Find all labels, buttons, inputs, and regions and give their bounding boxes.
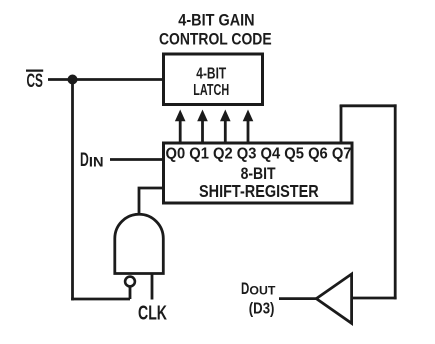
svg-text:LATCH: LATCH bbox=[193, 82, 229, 99]
wire gate output to shift register bbox=[139, 188, 164, 215]
svg-text:D: D bbox=[241, 280, 250, 298]
wire arrow Q2 to latch bbox=[220, 110, 231, 144]
node CS input label bbox=[26, 71, 43, 92]
wire CS to latch bbox=[48, 78, 164, 81]
label 4-BIT GAIN CONTROL CODE bbox=[159, 10, 272, 48]
wire DIN to shift register bbox=[110, 158, 164, 161]
junction dot on CS line bbox=[68, 75, 78, 85]
svg-text:CLK: CLK bbox=[138, 303, 167, 325]
shift register U2 8-BIT SHIFT-REGISTER box bbox=[164, 143, 353, 203]
wire stub bubble to bottom wire bbox=[129, 286, 132, 299]
node DOUT (D3) output label bbox=[241, 280, 276, 317]
wire bottom horizontal to gate bubble bbox=[71, 298, 130, 301]
svg-text:CS: CS bbox=[27, 71, 43, 92]
svg-text:IN: IN bbox=[89, 154, 104, 170]
wire arrow Q0 to latch bbox=[175, 110, 186, 144]
svg-text:CONTROL CODE: CONTROL CODE bbox=[159, 30, 272, 49]
wire top horizontal bbox=[340, 104, 397, 107]
svg-text:(D3): (D3) bbox=[249, 300, 275, 317]
inverter bubble on gate input bbox=[125, 277, 135, 287]
svg-text:SHIFT-REGISTER: SHIFT-REGISTER bbox=[199, 181, 319, 201]
wire arrow Q3 to latch bbox=[243, 110, 254, 144]
wire right vertical down bbox=[394, 104, 397, 299]
svg-text:4-BIT GAIN: 4-BIT GAIN bbox=[178, 10, 254, 29]
gate G1 AND gate body bbox=[115, 214, 164, 273]
wire arrow Q1 to latch bbox=[197, 110, 208, 144]
wire buffer output to DOUT bbox=[279, 297, 317, 300]
buffer A1 triangle bbox=[316, 274, 351, 323]
svg-text:D: D bbox=[80, 149, 89, 171]
wire CLK input stub bbox=[151, 274, 154, 300]
svg-text:Q0 Q1 Q2 Q3 Q4 Q5 Q6 Q7: Q0 Q1 Q2 Q3 Q4 Q5 Q6 Q7 bbox=[166, 146, 352, 163]
wire Q7 riser from shift register top bbox=[340, 105, 343, 143]
svg-text:OUT: OUT bbox=[249, 284, 276, 298]
wire into buffer input bbox=[352, 297, 397, 300]
latch U1 4-BIT LATCH box bbox=[164, 54, 263, 105]
node DIN input label bbox=[80, 149, 104, 171]
wire CS vertical down left side bbox=[71, 80, 74, 301]
svg-text:4-BIT: 4-BIT bbox=[196, 65, 226, 82]
